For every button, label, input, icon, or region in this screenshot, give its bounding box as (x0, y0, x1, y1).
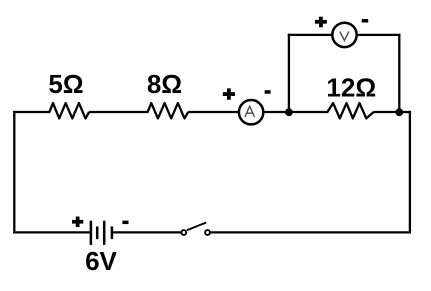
svg-text:8Ω: 8Ω (147, 69, 182, 99)
battery + polarity label (72, 217, 83, 228)
wire: ammeter to node A (263, 111, 290, 113)
ammeter M1 circle (239, 100, 263, 124)
svg-text:5Ω: 5Ω (48, 69, 83, 99)
wire: left side vertical (13, 111, 15, 234)
voltmeter + polarity label (315, 17, 327, 28)
wire: R3 to node B (374, 111, 400, 113)
wire: R1 to R2 (89, 111, 148, 113)
voltmeter M2 letter V (340, 31, 349, 40)
wire: right side vertical (409, 111, 411, 234)
wire: voltmeter branch right vertical (398, 34, 400, 112)
wire: node A to R3 (289, 111, 328, 113)
voltmeter - polarity label (362, 19, 369, 23)
resistor R3 (12 ohm) (327, 103, 373, 118)
wire: voltmeter to branch right vertical (357, 34, 401, 36)
ammeter M1 letter A (245, 106, 255, 117)
resistor R1 (5 ohm) (49, 103, 89, 118)
battery B1 (6V) plates (91, 221, 112, 245)
svg-text:6V: 6V (85, 246, 117, 276)
switch S1 (open) (181, 223, 210, 235)
wire: top-left horizontal to R1 (13, 111, 50, 113)
ammeter - polarity label (265, 90, 271, 94)
wire: R2 to ammeter (188, 111, 238, 113)
wire: bottom-left horizontal to battery (13, 231, 91, 233)
junction node A (285, 108, 293, 116)
svg-text:12Ω: 12Ω (326, 73, 376, 103)
junction node B (395, 108, 403, 116)
wire: branch top left to voltmeter (288, 34, 333, 36)
resistor R2 (8 ohm) (148, 103, 189, 118)
wire: voltmeter branch left vertical (288, 34, 290, 112)
wire: battery to switch (112, 231, 181, 233)
voltmeter M2 circle (332, 23, 356, 47)
ammeter + polarity label (223, 88, 235, 99)
wire: switch to bottom-right corner (211, 231, 411, 233)
battery - polarity label (122, 221, 128, 225)
wire: node B to top-right corner (399, 111, 411, 113)
